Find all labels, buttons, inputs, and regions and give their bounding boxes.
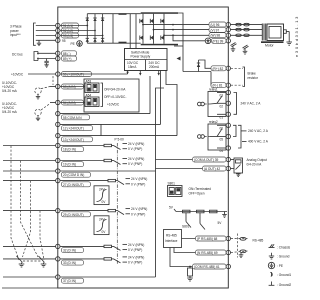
wire 42: [156, 168, 227, 170]
svg-text:50 (+10VOUT): 50 (+10VOUT): [63, 73, 84, 77]
resistor row27: [108, 179, 116, 181]
wire brake dash1: [231, 67, 243, 69]
svg-text:: Ground: : Ground: [277, 255, 290, 259]
wire dashed external v4: [40, 211, 44, 260]
svg-text:91 (L1): 91 (L1): [63, 24, 73, 28]
wire bottom extension: [2, 287, 58, 289]
terminal 37: [3, 275, 156, 283]
svg-text:OFF=0-10VDC-: OFF=0-10VDC-: [104, 95, 126, 99]
wire brake minus: [211, 72, 226, 86]
svg-text:0 V (PNP): 0 V (PNP): [128, 162, 142, 166]
transistor brake arrow: [177, 57, 181, 61]
wire 13 riser: [166, 71, 177, 136]
node brake bracket: [243, 67, 245, 87]
resistor row32: [104, 245, 112, 247]
clamp shield2: [243, 45, 249, 54]
svg-text:93 (L3): 93 (L3): [63, 34, 73, 38]
terminal 19: [3, 158, 104, 166]
terminal 96: [209, 22, 231, 27]
wire 37 riser: [156, 88, 165, 277]
svg-text:0 V (PNP): 0 V (PNP): [128, 261, 142, 265]
diode D6: [101, 38, 104, 42]
svg-text:03: 03: [220, 94, 224, 98]
junction PE taps: [172, 24, 174, 26]
svg-text:(U) 96: (U) 96: [211, 23, 220, 27]
svg-text:S801: S801: [168, 182, 176, 186]
wire chopper feed: [178, 13, 183, 72]
svg-text:Brake: Brake: [248, 71, 257, 75]
switch box A53 A54: [84, 79, 139, 112]
svg-text:0/4-20 mA: 0/4-20 mA: [2, 110, 18, 114]
svg-text:ON=Terminated: ON=Terminated: [189, 187, 212, 191]
svg-text:29 (D IN/OUT): 29 (D IN/OUT): [63, 213, 84, 217]
inverter bus bars: [141, 12, 178, 45]
inverter IGBT leg1: [140, 14, 143, 44]
switch row33: [112, 255, 145, 264]
bridge leg3: [102, 14, 104, 44]
analog output DAC box: [231, 158, 243, 177]
PE symbol output: [205, 38, 211, 44]
wire motor W: [164, 34, 226, 36]
terminal 32: [3, 244, 104, 252]
svg-text:RS-485: RS-485: [166, 234, 177, 238]
svg-text:240 V AC, 2 A: 240 V AC, 2 A: [248, 129, 269, 133]
wire RS-485 shield dashed: [237, 234, 239, 258]
inverter IGBT leg2: [150, 14, 153, 44]
wire brake dash2: [231, 84, 243, 86]
terminal 97: [209, 27, 231, 32]
svg-text:24 V (NPN): 24 V (NPN): [131, 177, 147, 181]
node relay2 bracket inner: [233, 125, 236, 136]
diode brake: [197, 60, 200, 72]
wire SMPS out1: [126, 71, 129, 75]
wire motor cable: [231, 25, 263, 36]
svg-text:DC bus: DC bus: [12, 53, 23, 57]
diode D3: [101, 18, 104, 21]
svg-text:53 (A IN): 53 (A IN): [63, 85, 76, 89]
wire SMPS out3: [157, 71, 160, 76]
bridge leg1: [86, 14, 88, 44]
svg-text:0/4-20 mA: 0/4-20 mA: [247, 162, 263, 166]
svg-text:Motor: Motor: [265, 43, 275, 47]
wire 89: [37, 58, 56, 60]
svg-text:Interface: Interface: [165, 239, 178, 243]
svg-text:(N RS-485) 69: (N RS-485) 69: [197, 251, 218, 255]
svg-text:(V) 97: (V) 97: [211, 28, 220, 32]
wire 53 internal: [60, 86, 85, 88]
node DC bus connector: [34, 52, 38, 61]
terminal 88: [56, 51, 77, 56]
legend ground1: [270, 272, 291, 277]
svg-text:0 V (PNP): 0 V (PNP): [128, 248, 142, 252]
DC- bus: [87, 42, 140, 44]
RS-485 interface box: [164, 230, 182, 248]
terminal 39: [193, 157, 231, 162]
wire 12 riser: [160, 71, 162, 125]
wire 55 riser: [149, 76, 151, 114]
svg-text:02: 02: [220, 105, 224, 109]
svg-text:33 (D IN): 33 (D IN): [63, 261, 76, 265]
svg-text:88 (-): 88 (-): [63, 52, 71, 56]
switch S801 contacts: [182, 213, 222, 230]
svg-text:89 (+): 89 (+): [63, 57, 71, 61]
switch row29: [116, 207, 148, 216]
terminal 93: [56, 33, 79, 38]
wire 12-13 bridge: [100, 124, 102, 135]
terminal 01: [220, 112, 231, 119]
PE symbol input: [77, 41, 83, 47]
svg-text:: PE: : PE: [277, 264, 283, 268]
node relay1 bracket: [234, 93, 237, 115]
junction bridge taps: [86, 25, 88, 27]
svg-text:0 V (PNP): 0 V (PNP): [128, 147, 142, 151]
SMPS box: [125, 49, 168, 71]
svg-text:resistor: resistor: [248, 76, 259, 80]
potentiometer pot1: [35, 87, 50, 100]
wire bridge tap1: [60, 25, 87, 27]
rectifier bridge: [60, 14, 141, 44]
svg-text:24 V (NPN): 24 V (NPN): [128, 243, 144, 247]
label analog output: [247, 158, 267, 167]
svg-text:24 V (NPN): 24 V (NPN): [131, 207, 147, 211]
svg-text:18 (D IN): 18 (D IN): [63, 148, 76, 152]
capacitor bank: [113, 13, 136, 48]
resistor RS-485 common: [187, 266, 193, 281]
terminal 03: [220, 90, 231, 97]
switch row32: [112, 243, 145, 252]
wire motor V: [154, 29, 227, 31]
svg-text:: Ground1: : Ground1: [277, 273, 291, 277]
svg-text:ON=0/4-20 mA: ON=0/4-20 mA: [104, 88, 126, 92]
wire 39: [156, 159, 227, 161]
wire L1: [36, 25, 56, 27]
box output29: [94, 216, 109, 235]
node chopper stub: [174, 45, 183, 47]
svg-text:13 (+24VOUT): 13 (+24VOUT): [63, 138, 84, 142]
terminal 99: [212, 38, 231, 43]
svg-text:0/4-20 mA: 0/4-20 mA: [2, 89, 18, 93]
wire 50 internal: [60, 73, 128, 75]
resistor row29: [108, 209, 116, 211]
terminal 95: [56, 38, 75, 46]
wire RS-485 external: [231, 237, 264, 257]
svg-text:20 (COM D IN): 20 (COM D IN): [63, 173, 84, 177]
label brake resistor: [248, 71, 259, 80]
wire PE input: [36, 39, 56, 41]
wire L2: [36, 30, 56, 32]
switch row27: [116, 177, 148, 186]
label analog source 1: [2, 81, 18, 93]
terminal 20: [3, 169, 156, 177]
potentiometer pot2: [35, 104, 50, 121]
svg-text:+10VDC: +10VDC: [107, 102, 120, 106]
switch external S2: [39, 256, 47, 267]
switch external S1: [17, 256, 25, 267]
label relay2 rating2: [242, 140, 269, 144]
terminal 29: [3, 208, 108, 216]
wire 54 external: [50, 102, 56, 104]
label analog source 2: [2, 102, 18, 114]
wire bridge tap3: [60, 35, 103, 37]
wire 68: [182, 238, 227, 240]
box output27: [94, 186, 109, 205]
svg-text:e30bd331.13: e30bd331.13: [294, 15, 299, 57]
svg-text:19 (D IN): 19 (D IN): [63, 163, 76, 167]
svg-text:27 (D IN/OUT): 27 (D IN/OUT): [63, 183, 84, 187]
legend PE: [268, 262, 283, 268]
diode D1: [86, 18, 89, 21]
wire dashed bottom link: [23, 260, 41, 262]
terminal 53: [56, 84, 84, 89]
capacitor dc-link small: [44, 59, 48, 68]
motor M: [261, 24, 286, 48]
enclosure drive outline: [58, 7, 229, 288]
terminal 91: [56, 23, 79, 28]
terminal 02: [220, 101, 231, 108]
switch row18: [112, 142, 145, 151]
relay 1: [198, 88, 227, 117]
terminal 06: [220, 123, 231, 130]
wire 50 external: [28, 73, 56, 75]
terminal 54: [56, 100, 84, 105]
terminal 81: [211, 83, 231, 88]
svg-text:P 5-00: P 5-00: [115, 138, 125, 142]
svg-text:: Ground2: : Ground2: [277, 283, 291, 287]
diode D5: [93, 38, 96, 42]
terminal 05: [220, 134, 231, 141]
svg-text:01: 01: [220, 116, 224, 120]
terminal 13: [56, 133, 177, 141]
terminal 55: [56, 111, 150, 119]
wire 61: [170, 248, 226, 267]
svg-text:RS-485: RS-485: [253, 239, 264, 243]
svg-text:32 (D IN): 32 (D IN): [63, 249, 76, 253]
wire 88: [37, 52, 56, 54]
wire 54 internal: [60, 102, 85, 104]
svg-text:24 V (NPN): 24 V (NPN): [128, 157, 144, 161]
terminal 12: [56, 122, 161, 130]
terminal 98: [209, 33, 231, 38]
switch row19: [112, 157, 145, 166]
terminal 27: [3, 178, 108, 186]
svg-text:240 V AC, 2 A: 240 V AC, 2 A: [241, 102, 262, 106]
legend chassis: [269, 244, 291, 249]
svg-text:(W) 98: (W) 98: [211, 34, 221, 38]
svg-text:24 V (NPN): 24 V (NPN): [128, 255, 144, 259]
svg-text:37 (D IN): 37 (D IN): [63, 279, 76, 283]
svg-text:(P RS-485) 68: (P RS-485) 68: [197, 237, 218, 241]
svg-text:: Chassis: : Chassis: [277, 246, 291, 250]
svg-text:15mA: 15mA: [128, 65, 137, 69]
inverter IGBT leg3: [161, 14, 164, 44]
node input bracket: [34, 23, 36, 45]
terminal 50: [56, 72, 92, 77]
svg-text:Analog Output: Analog Output: [247, 158, 267, 162]
svg-text:200mA: 200mA: [149, 65, 160, 69]
terminal 89: [56, 56, 77, 61]
brake chopper: [174, 13, 226, 85]
svg-text:24 V (NPN): 24 V (NPN): [128, 142, 144, 146]
svg-text:05: 05: [220, 138, 224, 142]
bridge leg2: [94, 14, 96, 44]
svg-text:S801: S801: [182, 225, 190, 229]
legend ground: [269, 253, 290, 259]
label S801 setting: [189, 187, 212, 196]
relay 2: [198, 120, 227, 150]
svg-text:55 COM A IN: 55 COM A IN: [63, 116, 82, 120]
terminal 42: [203, 166, 231, 171]
motor cable shield ovals: [236, 23, 250, 36]
label 3-phase power input: [10, 25, 22, 38]
svg-text:(COM RS-485) 61: (COM RS-485) 61: [194, 265, 220, 269]
svg-text:92 (L2): 92 (L2): [63, 29, 73, 33]
wire 69: [174, 248, 226, 253]
node relay2 bracket outer: [238, 125, 241, 148]
svg-text:54 (A IN): 54 (A IN): [63, 101, 76, 105]
dash-dot NPN PNP line: [116, 143, 118, 264]
terminal 33: [3, 257, 104, 265]
legend ground2: [269, 282, 292, 288]
svg-text:input***: input***: [10, 33, 21, 37]
wire L3: [36, 35, 56, 37]
diode D2: [93, 18, 96, 21]
wire dashed external v2: [21, 161, 39, 257]
wire brake plus: [199, 60, 227, 68]
label relay2 rating1: [241, 129, 269, 133]
svg-text:(A OUT) 42: (A OUT) 42: [204, 167, 220, 171]
svg-text:0 V (PNP): 0 V (PNP): [131, 182, 145, 186]
wire dashed external v3: [23, 181, 31, 257]
svg-text:(COM A OUT) 39: (COM A OUT) 39: [194, 158, 218, 162]
resistor row33: [104, 258, 112, 260]
switch S801: [168, 182, 183, 197]
svg-text:(PE) 99: (PE) 99: [213, 39, 224, 43]
terminal 18: [3, 143, 104, 151]
svg-text:0 V (PNP): 0 V (PNP): [131, 212, 145, 216]
svg-text:OFF=Open: OFF=Open: [189, 192, 205, 196]
wire SMPS out2: [139, 71, 142, 76]
DC+ bus: [87, 13, 140, 15]
RS-485 termination rail: [169, 206, 227, 218]
wire 53 external: [50, 86, 56, 88]
ground motor: [286, 32, 292, 46]
terminal 69: [196, 250, 231, 255]
ground input: [37, 40, 41, 45]
junction inverter taps: [142, 24, 144, 26]
svg-text:400 V AC, 2 A: 400 V AC, 2 A: [248, 140, 269, 144]
diode D4: [86, 38, 89, 42]
terminal 04: [220, 146, 231, 153]
resistor row18: [104, 144, 112, 146]
clamp shield1: [231, 43, 237, 52]
wire +10 link dashed: [52, 76, 54, 85]
svg-text:12 (+24VOUT): 12 (+24VOUT): [63, 127, 84, 131]
svg-text:(R+) 82: (R+) 82: [213, 67, 224, 71]
svg-text:06: 06: [220, 127, 224, 131]
svg-text:Power Supply: Power Supply: [131, 55, 151, 59]
svg-text:95: 95: [62, 39, 66, 43]
terminal 82: [211, 66, 231, 71]
svg-text:04: 04: [220, 149, 224, 153]
wire chopper emitter: [183, 71, 211, 73]
wire bridge tap2: [60, 30, 95, 32]
wire motor U: [143, 24, 226, 26]
svg-text:PE: PE: [71, 42, 75, 46]
terminal 92: [56, 28, 79, 33]
wire dashed external v1: [11, 146, 19, 260]
terminal 68: [196, 236, 231, 241]
resistor row19: [104, 159, 112, 161]
svg-text:+10VDC: +10VDC: [11, 72, 24, 76]
terminal 61: [193, 264, 231, 269]
wire PE drop: [173, 35, 205, 41]
